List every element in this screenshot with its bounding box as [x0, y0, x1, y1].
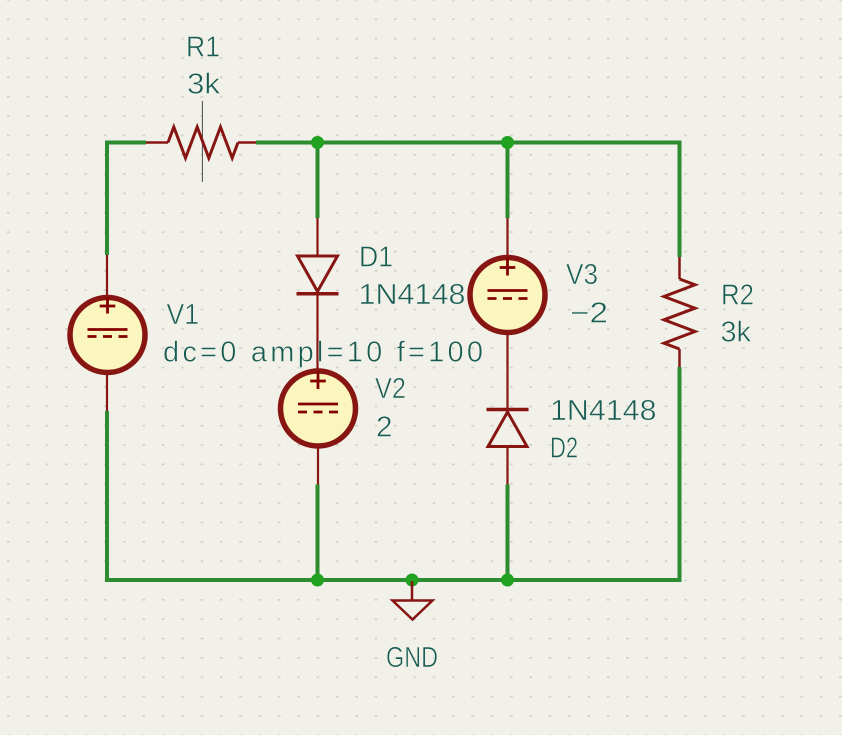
- svg-text:D1: D1: [359, 242, 393, 274]
- svg-text:1N4148: 1N4148: [550, 395, 657, 427]
- svg-text:V1: V1: [167, 299, 200, 331]
- svg-text:V3: V3: [566, 259, 598, 291]
- svg-text:R1: R1: [186, 32, 220, 64]
- svg-text:−2: −2: [570, 298, 608, 330]
- svg-text:2: 2: [376, 412, 393, 444]
- svg-text:R2: R2: [721, 280, 754, 312]
- svg-text:V2: V2: [375, 373, 406, 405]
- svg-text:dc=0 ampl=10 f=100: dc=0 ampl=10 f=100: [163, 337, 483, 369]
- svg-text:3k: 3k: [721, 317, 752, 349]
- svg-text:3k: 3k: [187, 69, 221, 101]
- svg-text:1N4148: 1N4148: [359, 279, 466, 311]
- svg-text:D2: D2: [550, 433, 578, 465]
- svg-text:GND: GND: [386, 642, 438, 674]
